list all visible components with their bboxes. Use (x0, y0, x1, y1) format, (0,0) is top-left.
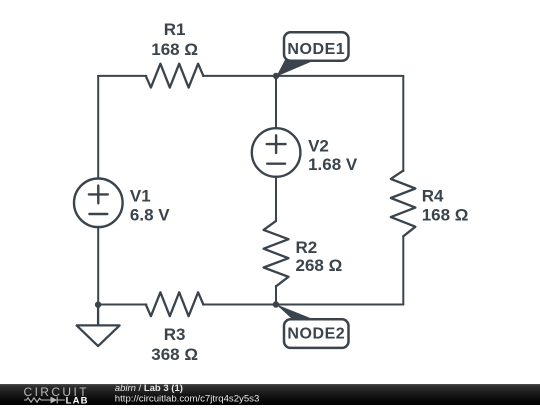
svg-text:168 Ω: 168 Ω (151, 40, 198, 59)
svg-text:V1: V1 (130, 187, 151, 206)
label R3 value (151, 325, 198, 364)
svg-text:1.68 V: 1.68 V (308, 155, 358, 174)
wire left vertical upper (97, 76, 99, 179)
junction at NODE2 (273, 301, 279, 307)
svg-text:NODE1: NODE1 (287, 41, 345, 58)
label R2 value (296, 238, 343, 275)
node NODE2 callout (276, 304, 349, 348)
wire right vertical lower (402, 236, 404, 305)
wire right vertical upper (402, 76, 404, 171)
svg-text:368 Ω: 368 Ω (151, 345, 198, 364)
svg-text:V2: V2 (308, 137, 329, 156)
resistor R1 (146, 64, 204, 88)
resistor R2 (264, 221, 289, 286)
wire middle vertical mid (275, 177, 277, 222)
node NODE1 callout (276, 32, 348, 76)
svg-text:http://circuitlab.com/c7jtrq4s: http://circuitlab.com/c7jtrq4s2y5s3 (115, 393, 260, 404)
ground (77, 305, 120, 347)
svg-text:R1: R1 (164, 20, 186, 39)
svg-text:6.8 V: 6.8 V (130, 205, 170, 224)
resistor R3 (146, 292, 204, 316)
footer logo CIRCUITLAB (24, 385, 89, 406)
wire middle vertical upper (275, 76, 277, 129)
label R4 value (422, 187, 469, 225)
voltage source V1 (74, 179, 123, 228)
resistor R4 (391, 171, 416, 237)
svg-text:R2: R2 (296, 238, 318, 257)
wire left vertical lower (97, 227, 99, 305)
junction at ground (95, 302, 101, 308)
label V1 value (130, 187, 170, 225)
svg-text:abirn / Lab 3 (1): abirn / Lab 3 (1) (115, 383, 183, 394)
svg-text:268 Ω: 268 Ω (296, 256, 343, 275)
label V2 value (308, 137, 358, 175)
label R1 value (151, 20, 198, 59)
svg-text:168 Ω: 168 Ω (422, 206, 469, 225)
svg-text:LAB: LAB (66, 395, 89, 405)
svg-text:R4: R4 (422, 187, 444, 206)
wire middle vertical bottom (275, 286, 277, 305)
svg-text:R3: R3 (164, 325, 186, 344)
wire top-left horizontal (98, 75, 146, 77)
junction at NODE1 (273, 73, 279, 79)
wire top-right horizontal (203, 75, 403, 77)
svg-text:NODE2: NODE2 (287, 326, 345, 343)
wire bottom left horizontal (98, 304, 146, 306)
voltage source V2 (252, 128, 301, 177)
wire bottom right horizontal (203, 304, 403, 306)
footer bar (0, 384, 540, 405)
